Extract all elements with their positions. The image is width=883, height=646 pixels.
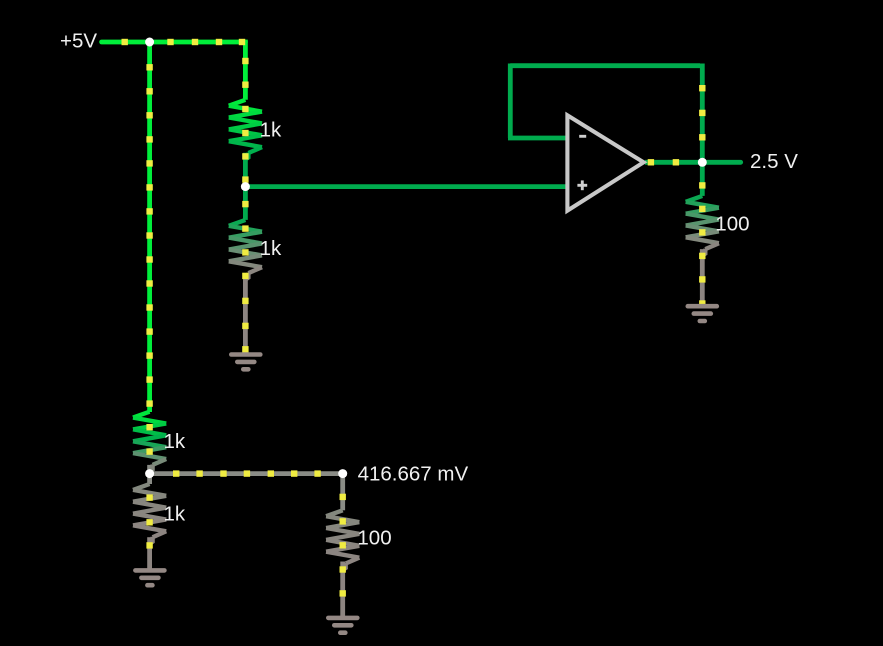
current dots left branch bbox=[146, 64, 152, 455]
resistor R3 1k (5V to 416mV) bbox=[133, 412, 166, 472]
wire R4 to ground bbox=[147, 537, 152, 570]
wire R5 to ground bbox=[340, 562, 345, 618]
label +5V bbox=[60, 30, 97, 53]
node 2.5V divider junction bbox=[241, 182, 250, 191]
wire mid branch top vertical bbox=[243, 40, 248, 100]
ground G4 right branch bbox=[688, 306, 717, 321]
svg-text:1k: 1k bbox=[164, 503, 186, 526]
current dots feedback vertical bbox=[699, 85, 705, 141]
wire feedback top horizontal bbox=[510, 63, 700, 68]
label R5 value 100 bbox=[357, 527, 391, 550]
node 416mV left junction bbox=[145, 469, 154, 478]
wire R3 bottom lead bbox=[147, 465, 152, 474]
svg-text:1k: 1k bbox=[260, 237, 282, 260]
node +5V rail junction bbox=[145, 38, 154, 47]
wire R6 to ground bbox=[700, 249, 705, 306]
resistor R1 1k (5V to 2.5V) bbox=[229, 100, 262, 160]
current dots op-amp output bbox=[648, 159, 679, 165]
ground G2 bottom left bbox=[135, 570, 164, 585]
wire R1 bottom lead bbox=[243, 153, 248, 187]
op-amp U1 bbox=[567, 115, 643, 210]
wire op-amp inverting input bbox=[508, 136, 567, 141]
svg-text:416.667 mV: 416.667 mV bbox=[358, 462, 469, 485]
wire R2 to ground bbox=[243, 273, 248, 354]
wire output stub to 2.5V label bbox=[702, 160, 740, 165]
node op-amp output junction bbox=[698, 158, 707, 167]
svg-text:100: 100 bbox=[357, 527, 391, 550]
label R1 value 1k bbox=[260, 118, 282, 141]
resistor R4 1k (416mV to ground) bbox=[133, 484, 166, 544]
current dots R6 branch bbox=[699, 182, 705, 306]
wire R6 top lead bbox=[700, 162, 705, 196]
wire 416mV horizontal bbox=[150, 471, 343, 476]
label output voltage 2.5 V bbox=[750, 150, 798, 173]
svg-text:+5V: +5V bbox=[60, 30, 97, 53]
label R2 value 1k bbox=[260, 237, 282, 260]
ground G3 bottom middle bbox=[328, 618, 357, 633]
label node voltage 416.667 mV bbox=[358, 462, 469, 485]
wire R5 top lead bbox=[340, 474, 345, 511]
wire feedback right vertical bbox=[700, 64, 705, 163]
current dots +5V rail bbox=[122, 39, 246, 45]
wire +5V rail horizontal bbox=[102, 40, 246, 45]
svg-text:2.5 V: 2.5 V bbox=[750, 150, 798, 173]
resistor R6 100 (2.5V to ground) bbox=[686, 196, 719, 256]
wire op-amp noninverting input bbox=[245, 184, 567, 189]
node 416mV right junction bbox=[338, 469, 347, 478]
current dots mid branch upper bbox=[242, 58, 248, 183]
wire feedback left vertical bbox=[508, 64, 513, 139]
label R4 value 1k bbox=[164, 503, 186, 526]
wire left branch vertical bbox=[147, 42, 152, 412]
label R3 value 1k bbox=[164, 430, 186, 453]
svg-text:100: 100 bbox=[715, 213, 749, 236]
current dots R5 branch bbox=[340, 494, 346, 597]
wire op-amp output bbox=[645, 160, 702, 165]
current dots R4 branch bbox=[146, 494, 152, 548]
ground G1 mid branch bbox=[231, 355, 260, 370]
svg-text:1k: 1k bbox=[260, 118, 282, 141]
current dots mid branch lower bbox=[242, 201, 248, 353]
resistor R2 1k (2.5V to ground) bbox=[229, 220, 262, 280]
resistor R5 100 (416mV to ground) bbox=[326, 510, 359, 570]
current dots 416mV wire bbox=[173, 470, 321, 476]
svg-text:1k: 1k bbox=[164, 430, 186, 453]
label R6 value 100 bbox=[715, 213, 749, 236]
wire R2 top lead bbox=[243, 187, 248, 220]
wire R4 top lead bbox=[147, 474, 152, 484]
